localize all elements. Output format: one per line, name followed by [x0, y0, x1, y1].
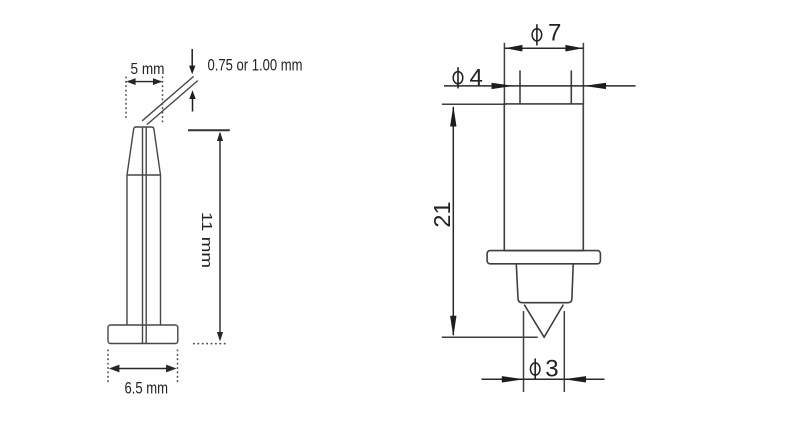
- dimension 21 bottom reference line: [442, 336, 538, 338]
- svg-text:21: 21: [429, 201, 455, 227]
- lower hub section: [516, 264, 573, 303]
- svg-text:11 mm: 11 mm: [198, 212, 215, 268]
- dimension 5mm extension lines (dotted): [126, 77, 163, 124]
- cylinder body: [504, 104, 583, 251]
- phi7 dimension arrow: [504, 45, 583, 52]
- svg-text:4: 4: [470, 65, 483, 92]
- leader diagonal line lower: [147, 81, 198, 125]
- phi4 label: [453, 65, 483, 92]
- svg-text:6.5 mm: 6.5 mm: [125, 380, 169, 398]
- dimension 11mm bottom reference line (dotted): [193, 343, 227, 345]
- pin outline (tapered top + straight body): [127, 127, 161, 325]
- dimension 5mm arrow: [126, 78, 162, 85]
- bore wall line right: [145, 128, 147, 343]
- phi7 extension lines: [504, 43, 583, 104]
- pin shoulder joint line: [127, 174, 161, 176]
- svg-text:7: 7: [548, 19, 561, 46]
- phi3 dimension line with inward arrows: [482, 376, 605, 382]
- dimension 6.5mm extension lines (dotted): [108, 350, 178, 383]
- flange collar: [487, 251, 600, 264]
- svg-text:5 mm: 5 mm: [131, 61, 165, 78]
- bore size up arrow: [189, 90, 195, 111]
- phi3 extension lines: [524, 311, 565, 392]
- dimension 11mm arrow: [217, 132, 223, 342]
- pin flange (base): [108, 325, 178, 344]
- phi7 label: [532, 19, 561, 46]
- leader diagonal line upper: [142, 76, 193, 120]
- nozzle cone tip: [524, 305, 563, 338]
- inner bore pin left: [519, 70, 521, 103]
- svg-text:0.75 or 1.00 mm: 0.75 or 1.00 mm: [208, 57, 303, 75]
- dimension 21 top reference line: [442, 103, 506, 105]
- bore wall line left: [142, 128, 144, 343]
- dimension 21 arrow: [450, 106, 456, 337]
- phi4 dimension line with inward arrows: [444, 83, 636, 89]
- bore size down arrow: [189, 49, 195, 74]
- dimension 6.5mm arrow: [109, 365, 177, 373]
- phi3 label: [530, 355, 558, 382]
- svg-text:3: 3: [545, 355, 558, 382]
- dimension 11mm top reference line: [188, 129, 230, 131]
- inner bore pin right: [570, 70, 572, 103]
